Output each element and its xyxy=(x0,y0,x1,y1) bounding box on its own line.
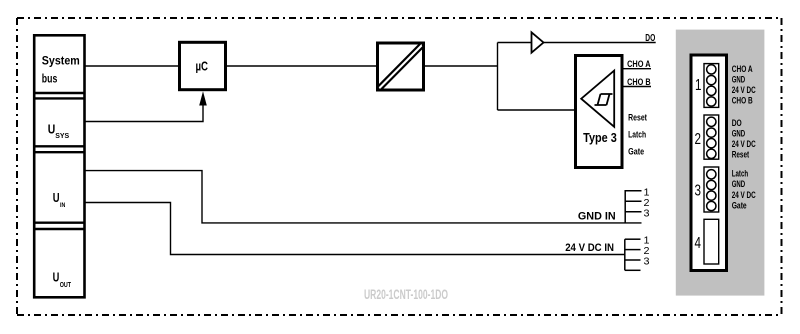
wire node to buffer xyxy=(498,42,532,44)
svg-text:CHO A: CHO A xyxy=(627,59,651,69)
wire U_IN to GND IN xyxy=(85,171,642,223)
left column outer box xyxy=(34,35,84,297)
wire CHO A xyxy=(624,68,652,70)
wire CHO B xyxy=(624,86,652,88)
svg-text:CHO A: CHO A xyxy=(732,64,753,74)
svg-text:Reset: Reset xyxy=(628,113,647,123)
hysteresis symbol xyxy=(595,94,613,105)
arrowhead into uC xyxy=(199,91,207,105)
frame dashed border xyxy=(17,17,782,19)
wire uC to isolator xyxy=(227,65,376,67)
Type 3 box xyxy=(576,56,623,168)
svg-text:3: 3 xyxy=(644,256,650,268)
svg-text:SYS: SYS xyxy=(55,131,69,140)
svg-text:Reset: Reset xyxy=(732,150,750,160)
wire buffer to DO xyxy=(544,42,656,44)
svg-text:3: 3 xyxy=(644,207,650,219)
isolator diagonal stripes xyxy=(380,46,422,89)
svg-text:24 V DC: 24 V DC xyxy=(732,190,756,200)
gray terminal panel xyxy=(676,30,765,296)
microcontroller box uC xyxy=(180,42,226,89)
svg-text:Latch: Latch xyxy=(628,130,646,140)
wire U_IN to 24VDC IN xyxy=(85,203,625,255)
svg-text:24 V DC: 24 V DC xyxy=(732,139,756,149)
svg-text:DO: DO xyxy=(732,118,742,128)
terminal group 3 xyxy=(704,167,719,212)
svg-text:GND: GND xyxy=(732,129,746,139)
svg-text:Type 3: Type 3 xyxy=(583,130,617,145)
wire node to Type 3 xyxy=(498,109,575,111)
svg-text:U: U xyxy=(48,122,56,137)
svg-text:µC: µC xyxy=(196,59,209,73)
svg-text:3: 3 xyxy=(695,183,702,200)
svg-text:bus: bus xyxy=(42,74,58,86)
wire isolator to node xyxy=(425,65,498,67)
divider pair U_IN / U_OUT xyxy=(34,221,84,223)
node vertical xyxy=(497,43,499,111)
comparator triangle xyxy=(581,71,614,127)
terminal group 1 xyxy=(704,64,719,108)
svg-text:DO: DO xyxy=(645,33,655,44)
svg-text:24 V DC IN: 24 V DC IN xyxy=(565,242,614,254)
svg-text:Gate: Gate xyxy=(732,201,747,211)
svg-text:CHO B: CHO B xyxy=(627,77,651,87)
divider pair System bus / U_SYS xyxy=(34,92,84,94)
svg-text:Latch: Latch xyxy=(732,168,749,178)
terminal group 4 xyxy=(704,219,719,264)
svg-text:GND: GND xyxy=(732,179,746,189)
wire System bus to uC xyxy=(85,65,179,67)
buffer triangle xyxy=(532,32,544,52)
wire U_SYS to uC arrow xyxy=(85,105,204,122)
svg-text:U: U xyxy=(53,270,60,285)
svg-text:GND IN: GND IN xyxy=(578,211,616,223)
svg-text:UR20-1CNT-100-1DO: UR20-1CNT-100-1DO xyxy=(364,287,448,302)
svg-text:GND: GND xyxy=(732,75,746,85)
divider pair U_SYS / U_IN xyxy=(34,145,84,147)
svg-text:CHO B: CHO B xyxy=(732,95,753,105)
terminal group 2 xyxy=(704,115,719,159)
svg-text:Gate: Gate xyxy=(628,147,644,157)
galvanic isolator box xyxy=(378,43,424,90)
GND IN connector fork xyxy=(624,190,626,223)
svg-text:4: 4 xyxy=(695,235,702,252)
svg-text:OUT: OUT xyxy=(60,282,72,289)
svg-text:1: 1 xyxy=(695,77,702,94)
24VDC connector fork xyxy=(624,239,626,270)
svg-text:U: U xyxy=(53,190,60,205)
svg-text:2: 2 xyxy=(695,131,702,148)
svg-text:24 V DC: 24 V DC xyxy=(732,85,756,95)
connector body outline xyxy=(691,55,727,271)
svg-text:IN: IN xyxy=(60,202,66,209)
svg-text:System: System xyxy=(42,56,80,68)
